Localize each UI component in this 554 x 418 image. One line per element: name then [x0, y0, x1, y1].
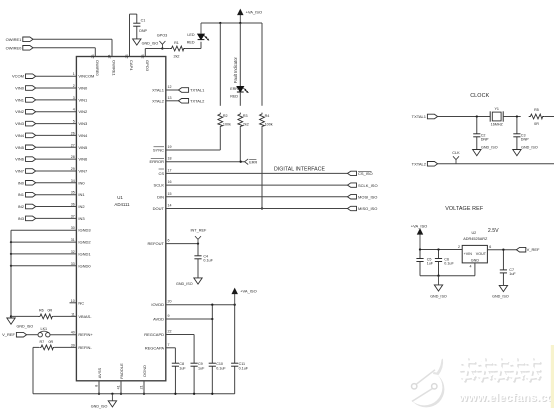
svg-text:OWIRE1: OWIRE1 — [112, 60, 117, 77]
wire pin 25 CAP4 to C1 — [125, 14, 137, 71]
svg-text:GPO3: GPO3 — [145, 60, 150, 72]
power +VA_ISO right arrow — [232, 289, 257, 305]
svg-text:+VA_ISO: +VA_ISO — [240, 289, 257, 294]
svg-text:VOLTAGE REF: VOLTAGE REF — [445, 206, 484, 212]
svg-text:LK1: LK1 — [41, 327, 48, 331]
svg-text:VCOM: VCOM — [12, 74, 24, 79]
svg-text:CLK: CLK — [452, 151, 460, 155]
svg-text:R1: R1 — [174, 41, 179, 45]
svg-text:19: 19 — [168, 145, 172, 149]
svg-text:ERROR: ERROR — [150, 159, 165, 164]
svg-text:VBIAS-: VBIAS- — [78, 314, 92, 319]
svg-text:R3: R3 — [243, 114, 248, 118]
LED red fault LED1 — [187, 23, 209, 45]
svg-text:22: 22 — [168, 330, 172, 334]
svg-text:25: 25 — [125, 55, 129, 59]
wire R7 to pin 39 REFIN- — [54, 343, 92, 350]
svg-text:SCLK_ISO: SCLK_ISO — [358, 183, 378, 188]
resistor R7 0R — [39, 340, 54, 350]
watermark elecfans logo — [406, 356, 444, 407]
svg-text:1: 1 — [73, 72, 75, 76]
svg-text:OWIRE0: OWIRE0 — [95, 60, 100, 77]
wire VIN1 to pin 3 VIN1 — [36, 96, 88, 103]
svg-text:V_REF: V_REF — [527, 247, 540, 252]
svg-text:6: 6 — [168, 239, 170, 243]
svg-text:1uF: 1uF — [509, 272, 516, 276]
svg-text:13: 13 — [168, 96, 172, 100]
svg-text:R2: R2 — [223, 114, 228, 118]
wire VIN3 to pin 5 VIN3 — [36, 120, 88, 127]
wire R1 to LED — [185, 42, 201, 49]
ground GND_ISO at vref — [430, 276, 447, 299]
svg-text:100k: 100k — [223, 123, 231, 127]
svg-text:VIN7: VIN7 — [15, 169, 25, 174]
connector TXTAL1 clock — [412, 114, 438, 119]
svg-text:OWIRE0: OWIRE0 — [6, 45, 23, 50]
svg-text:IN3: IN3 — [78, 216, 85, 221]
svg-text:5: 5 — [73, 120, 75, 124]
pin 19 SYNC label — [153, 145, 172, 153]
svg-text:R5: R5 — [534, 108, 539, 112]
capacitor C10 0.1uF — [209, 305, 227, 394]
svg-text:IN2: IN2 — [18, 204, 25, 209]
svg-text:34: 34 — [71, 179, 75, 183]
svg-text:GND_ISO: GND_ISO — [430, 294, 447, 298]
svg-text:IOVDD: IOVDD — [151, 302, 164, 307]
regulator U2 ADR4525ARZ — [462, 231, 488, 263]
svg-text:4: 4 — [470, 264, 472, 268]
wire pin 13 XTAL2 — [152, 96, 178, 104]
svg-text:DNP: DNP — [139, 29, 147, 33]
svg-text:NC: NC — [78, 300, 84, 305]
svg-text:Y1: Y1 — [494, 107, 499, 111]
connector TXTAL2 — [178, 98, 205, 103]
svg-text:VIN1: VIN1 — [15, 97, 25, 102]
svg-text:21: 21 — [140, 385, 144, 389]
svg-text:VIN2: VIN2 — [78, 109, 88, 114]
svg-text:29: 29 — [71, 167, 75, 171]
svg-text:IN0: IN0 — [18, 180, 25, 185]
connector VIN4 — [15, 133, 36, 138]
svg-text:VIN4: VIN4 — [15, 133, 25, 138]
svg-text:2: 2 — [73, 84, 75, 88]
wire IN1 to pin 35 IN1 — [36, 191, 86, 198]
pin 18 ERROR label — [150, 157, 172, 165]
svg-text:AD4111: AD4111 — [114, 202, 130, 207]
ground GND_ISO at C3 — [513, 146, 538, 156]
capacitor C7 1uF — [500, 250, 517, 286]
wire pin 32 IGND1 — [10, 250, 92, 257]
capacitor C9 1uF — [191, 360, 206, 394]
svg-text:DIN: DIN — [157, 194, 164, 199]
wire LED2 to R3 — [239, 92, 241, 106]
svg-text:C8: C8 — [179, 362, 184, 366]
svg-text:VIN4: VIN4 — [78, 133, 88, 138]
label Fault Indicator — [233, 57, 238, 84]
connector TXTAL2 clock — [412, 161, 438, 166]
svg-text:REGCAPA: REGCAPA — [145, 345, 165, 350]
svg-text:18: 18 — [168, 157, 172, 161]
svg-text:0.1uF: 0.1uF — [239, 366, 249, 370]
label 2.5V — [488, 228, 499, 234]
connector VIN0 — [15, 86, 36, 91]
svg-text:ERR: ERR — [230, 87, 238, 91]
svg-text:IGND3: IGND3 — [78, 228, 91, 233]
wire U2 VOUT to V_REF — [487, 245, 516, 251]
crystal Y1 16MHZ — [490, 107, 503, 126]
wire VIN0 to pin 2 VIN0 — [36, 84, 88, 91]
wire pin 20 IOVDD to +VA — [151, 300, 236, 308]
svg-text:AVDD: AVDD — [153, 317, 164, 322]
svg-text:36: 36 — [71, 203, 75, 207]
wire VBIAS- left segment — [11, 315, 39, 317]
svg-text:IGND1: IGND1 — [78, 251, 91, 256]
svg-text:PADDLE: PADDLE — [119, 363, 124, 379]
svg-text:14: 14 — [168, 204, 172, 208]
connector SCLK_ISO — [348, 183, 378, 188]
resistor R4 100k — [260, 113, 273, 128]
svg-text:TXTAL2: TXTAL2 — [190, 98, 205, 103]
wire pin 6 REFOUT — [148, 239, 200, 247]
wire ERROR to flag — [166, 161, 245, 163]
svg-text:1uF: 1uF — [427, 262, 434, 266]
pin 41 PADDLE bottom — [117, 363, 124, 395]
svg-text:VIN1: VIN1 — [78, 97, 88, 102]
node ERR net flag — [245, 159, 258, 165]
capacitor C1 DNP — [133, 14, 147, 39]
svg-text:OWIRE1: OWIRE1 — [6, 37, 23, 42]
wire pin 31 IGND2 — [10, 238, 92, 245]
wire IGND bus to ground — [10, 230, 12, 316]
node GPO3 net flag — [157, 34, 168, 50]
svg-text:0.1uF: 0.1uF — [444, 262, 454, 266]
svg-text:28: 28 — [71, 155, 75, 159]
svg-text:IN0: IN0 — [78, 180, 85, 185]
wire VIN6 to pin 28 VIN6 — [36, 155, 88, 162]
svg-text:IN1: IN1 — [18, 192, 25, 197]
svg-text:0.1uF: 0.1uF — [216, 366, 226, 370]
svg-text:0.1uF: 0.1uF — [203, 258, 213, 262]
pin 21 DGND bottom — [140, 365, 147, 395]
svg-text:www.elecfans.com: www.elecfans.com — [458, 392, 554, 404]
svg-text:VIN5: VIN5 — [15, 145, 25, 150]
svg-text:REFOUT: REFOUT — [148, 241, 165, 246]
svg-text:TXTAL1: TXTAL1 — [412, 114, 427, 119]
svg-text:REFIN-: REFIN- — [78, 345, 92, 350]
svg-text:VIN7: VIN7 — [78, 169, 88, 174]
LED red ERR LED2 — [230, 86, 248, 98]
ground GND_ISO at C4 — [176, 278, 202, 286]
connector VIN5 — [15, 145, 36, 150]
svg-text:8: 8 — [95, 385, 99, 387]
svg-text:12: 12 — [168, 85, 172, 89]
svg-text:2k2: 2k2 — [243, 123, 249, 127]
svg-text:GND_ISO: GND_ISO — [142, 42, 159, 46]
svg-text:16: 16 — [168, 180, 172, 184]
wire pin 14 DOUT — [153, 204, 348, 212]
connector V_REF out — [516, 247, 540, 252]
wire R4 to DOUT — [261, 127, 263, 209]
svg-text:CAP4: CAP4 — [129, 60, 134, 71]
wire pin 30 IGND3 — [11, 226, 91, 233]
capacitor C8 1uF — [172, 360, 187, 394]
pin 8 AVSS bottom — [95, 367, 102, 394]
svg-text:+VIN: +VIN — [464, 252, 473, 256]
svg-text:XTAL1: XTAL1 — [152, 88, 165, 93]
resistor R2 100k — [218, 113, 231, 128]
svg-text:SCLK: SCLK — [154, 183, 165, 188]
connector TXTAL1 — [178, 88, 205, 93]
svg-text:IN3: IN3 — [18, 216, 25, 221]
svg-text:CS_ISO: CS_ISO — [358, 171, 373, 176]
svg-text:1uF: 1uF — [198, 366, 205, 370]
wire R3 to ERROR net — [239, 127, 241, 161]
svg-text:+VA_ISO: +VA_ISO — [246, 9, 263, 14]
svg-text:RED: RED — [230, 94, 238, 98]
capacitor C2 DNP — [473, 117, 489, 150]
ground GND_ISO at C7 — [492, 285, 509, 298]
wire OWIRE1 to pin 24 — [33, 39, 117, 76]
connector OWIRE1 — [6, 37, 33, 42]
svg-text:39: 39 — [71, 343, 75, 347]
svg-text:AVSS: AVSS — [97, 367, 102, 378]
svg-text:CS: CS — [158, 171, 164, 176]
svg-text:IGND0: IGND0 — [78, 263, 91, 268]
svg-text:VIN5: VIN5 — [78, 145, 88, 150]
connector OWIRE0 — [6, 45, 33, 50]
svg-text:VIN0: VIN0 — [15, 86, 25, 91]
power +VA_ISO top rail arrow — [238, 9, 262, 23]
svg-text:1uF: 1uF — [179, 366, 186, 370]
svg-text:Fault Indicator: Fault Indicator — [233, 57, 238, 84]
ground GND_ISO at C1 — [133, 39, 159, 46]
resistor R6 0R — [38, 309, 53, 319]
svg-text:VIN3: VIN3 — [78, 121, 88, 126]
power +VA_ISO vref arrow — [411, 223, 428, 249]
wire R5 to edge — [544, 116, 554, 118]
svg-text:GND_ISO: GND_ISO — [481, 146, 498, 150]
svg-text:3: 3 — [73, 96, 75, 100]
svg-text:INT_REF: INT_REF — [190, 228, 207, 232]
svg-text:VIN6: VIN6 — [15, 157, 25, 162]
svg-text:27: 27 — [71, 143, 75, 147]
svg-text:2.5V: 2.5V — [488, 228, 499, 234]
svg-text:C11: C11 — [239, 362, 246, 366]
svg-text:V_REF: V_REF — [2, 332, 15, 337]
connector VCOM — [12, 74, 36, 79]
svg-text:CLOCK: CLOCK — [470, 93, 489, 99]
svg-text:33: 33 — [71, 262, 75, 266]
svg-text:U2: U2 — [471, 231, 476, 235]
wire ground bus bottom — [33, 393, 235, 395]
svg-text:GND_ISO: GND_ISO — [176, 282, 193, 286]
svg-text:GND_ISO: GND_ISO — [521, 146, 538, 150]
connector MISO_ISO — [348, 206, 378, 211]
svg-text:7: 7 — [168, 343, 170, 347]
svg-text:9: 9 — [168, 314, 170, 318]
svg-text:VOUT: VOUT — [476, 252, 487, 256]
wire R2 column from rail — [219, 23, 221, 106]
svg-text:C10: C10 — [216, 362, 223, 366]
svg-text:SYNC: SYNC — [153, 148, 164, 153]
svg-text:35: 35 — [71, 191, 75, 195]
svg-text:38: 38 — [141, 55, 145, 59]
ground GND_ISO at IGND bus — [7, 318, 33, 329]
capacitor C6 0.1uF — [435, 250, 455, 276]
wire +VA to U2 VIN rail — [419, 245, 462, 251]
svg-text:30: 30 — [71, 226, 75, 230]
connector VIN6 — [15, 157, 36, 162]
wire TXTAL1 to crystal — [438, 115, 491, 117]
wire U2 GND down — [470, 263, 475, 276]
capacitor C3 DNP — [513, 117, 529, 150]
wire +VA_ISO rail — [201, 22, 262, 24]
connector VIN7 — [15, 169, 36, 174]
svg-text:MOSI_ISO: MOSI_ISO — [358, 195, 377, 200]
wire IN3 to pin 37 IN3 — [36, 214, 86, 221]
capacitor C5 1uF — [416, 250, 433, 276]
svg-text:6: 6 — [489, 245, 491, 249]
svg-text:R6: R6 — [39, 309, 44, 313]
svg-text:DNP: DNP — [521, 137, 529, 141]
wire TXTAL2 to edge — [438, 163, 554, 165]
wire VCOM to pin 1 VINCOM — [36, 72, 95, 79]
capacitor C11 0.1uF — [231, 305, 249, 394]
wire IN0 to pin 34 IN0 — [36, 179, 86, 186]
svg-text:MISO_ISO: MISO_ISO — [358, 206, 377, 211]
wire crystal to R5 — [503, 115, 521, 117]
svg-text:GND_ISO: GND_ISO — [91, 405, 108, 409]
jumper LK1 — [38, 327, 50, 337]
wire IN2 to pin 36 IN2 — [36, 203, 86, 210]
wire V_REF to LK1 — [27, 334, 38, 336]
svg-text:16MHZ: 16MHZ — [491, 122, 504, 126]
IC U1 AD4111 body — [76, 57, 165, 381]
svg-text:DIGITAL INTERFACE: DIGITAL INTERFACE — [274, 167, 325, 173]
resistor R3 2k2 — [238, 113, 249, 128]
wire VIN7 to pin 29 VIN7 — [36, 167, 88, 174]
wire pin 17 CS — [158, 168, 347, 176]
wire pin 12 XTAL1 — [152, 85, 178, 93]
svg-text:C7: C7 — [509, 268, 514, 272]
connector IN1 — [18, 192, 36, 197]
svg-text:RED: RED — [187, 41, 195, 45]
wire R2 to SYNC — [166, 127, 221, 150]
connector V_REF — [2, 332, 27, 337]
svg-text:10: 10 — [71, 299, 75, 303]
node INT_REF net flag — [190, 228, 207, 243]
node VBIAS- junction — [10, 315, 12, 317]
wire pin 9 AVDD — [153, 314, 213, 322]
wire REFIN- stub down-left — [33, 347, 39, 393]
watermark text — [458, 358, 554, 405]
svg-text:GND_ISO: GND_ISO — [17, 325, 34, 329]
svg-text:LED: LED — [187, 33, 195, 37]
svg-text:40: 40 — [71, 331, 75, 335]
svg-text:+VA_ISO: +VA_ISO — [411, 223, 428, 228]
svg-text:DGND: DGND — [142, 365, 147, 377]
node CLK net flag — [452, 151, 460, 164]
connector CS_ISO — [348, 171, 373, 176]
svg-text:REFIN+: REFIN+ — [78, 332, 93, 337]
svg-text:C9: C9 — [198, 362, 203, 366]
svg-text:ERR: ERR — [249, 160, 257, 164]
svg-text:VIN2: VIN2 — [15, 109, 25, 114]
svg-text:TXTAL1: TXTAL1 — [190, 88, 205, 93]
svg-text:IN1: IN1 — [78, 192, 85, 197]
svg-text:24: 24 — [108, 55, 112, 59]
svg-text:0R: 0R — [48, 309, 53, 313]
svg-text:R4: R4 — [265, 114, 270, 118]
svg-text:15: 15 — [168, 192, 172, 196]
ground GND_ISO at bottom bus — [91, 394, 117, 409]
wire GPO3 to R1 — [162, 48, 169, 50]
label VOLTAGE REF — [445, 206, 484, 212]
wire pin 22 REGCAPD — [144, 330, 194, 361]
label CLOCK — [470, 93, 489, 99]
svg-text:11: 11 — [71, 312, 75, 316]
svg-text:100k: 100k — [265, 123, 273, 127]
svg-text:REGCAPD: REGCAPD — [144, 332, 164, 337]
connector VIN3 — [15, 121, 36, 126]
wire pin 16 SCLK — [154, 180, 348, 188]
connector VIN2 — [15, 109, 36, 114]
wire OWIRE0 to pin 23 — [33, 48, 100, 77]
svg-text:DNP: DNP — [481, 137, 489, 141]
wire pin 7 REGCAPA — [145, 343, 176, 360]
svg-text:DOUT: DOUT — [153, 206, 165, 211]
svg-text:37: 37 — [71, 214, 75, 218]
svg-text:GND_ISO: GND_ISO — [492, 295, 509, 299]
svg-text:IGND2: IGND2 — [78, 240, 91, 245]
svg-text:23: 23 — [91, 55, 95, 59]
resistor R5 0R — [529, 108, 545, 126]
capacitor C4 0.1uF — [194, 244, 213, 278]
svg-text:31: 31 — [71, 238, 75, 242]
svg-text:ADR4525ARZ: ADR4525ARZ — [463, 237, 488, 241]
wire vref ground bus — [420, 275, 475, 277]
connector IN3 — [18, 216, 36, 221]
svg-text:26: 26 — [71, 131, 75, 135]
svg-text:0R: 0R — [534, 122, 539, 126]
connector VIN1 — [15, 97, 36, 102]
svg-text:GND: GND — [471, 259, 480, 263]
wire VIN4 to pin 26 VIN4 — [36, 131, 88, 138]
svg-text:VIN0: VIN0 — [78, 86, 88, 91]
svg-text:32: 32 — [71, 250, 75, 254]
label DIGITAL INTERFACE — [274, 167, 325, 173]
wire LED2 column from rail — [239, 23, 241, 86]
connector MOSI_ISO — [348, 195, 378, 200]
svg-text:TXTAL2: TXTAL2 — [412, 161, 427, 166]
wire pin 15 DIN — [157, 192, 347, 200]
resistor R1 2k2 — [170, 41, 186, 58]
pin 10 NC stub — [70, 299, 85, 306]
wire VIN2 to pin 4 VIN2 — [36, 108, 88, 115]
wire R6 to pin 11 VBIAS- — [53, 312, 92, 319]
svg-text:VIN3: VIN3 — [15, 121, 25, 126]
svg-text:R7: R7 — [40, 340, 45, 344]
connector IN2 — [18, 204, 36, 209]
yellow edge strip — [551, 345, 554, 408]
svg-text:XTAL2: XTAL2 — [152, 98, 165, 103]
svg-text:4: 4 — [73, 108, 75, 112]
svg-text:C1: C1 — [141, 19, 146, 23]
wire LK1 to pin 40 REFIN+ — [50, 331, 93, 338]
svg-text:GPO3: GPO3 — [157, 34, 168, 38]
ground GND_ISO at C2 — [473, 146, 498, 156]
wire VIN5 to pin 27 VIN5 — [36, 143, 88, 150]
